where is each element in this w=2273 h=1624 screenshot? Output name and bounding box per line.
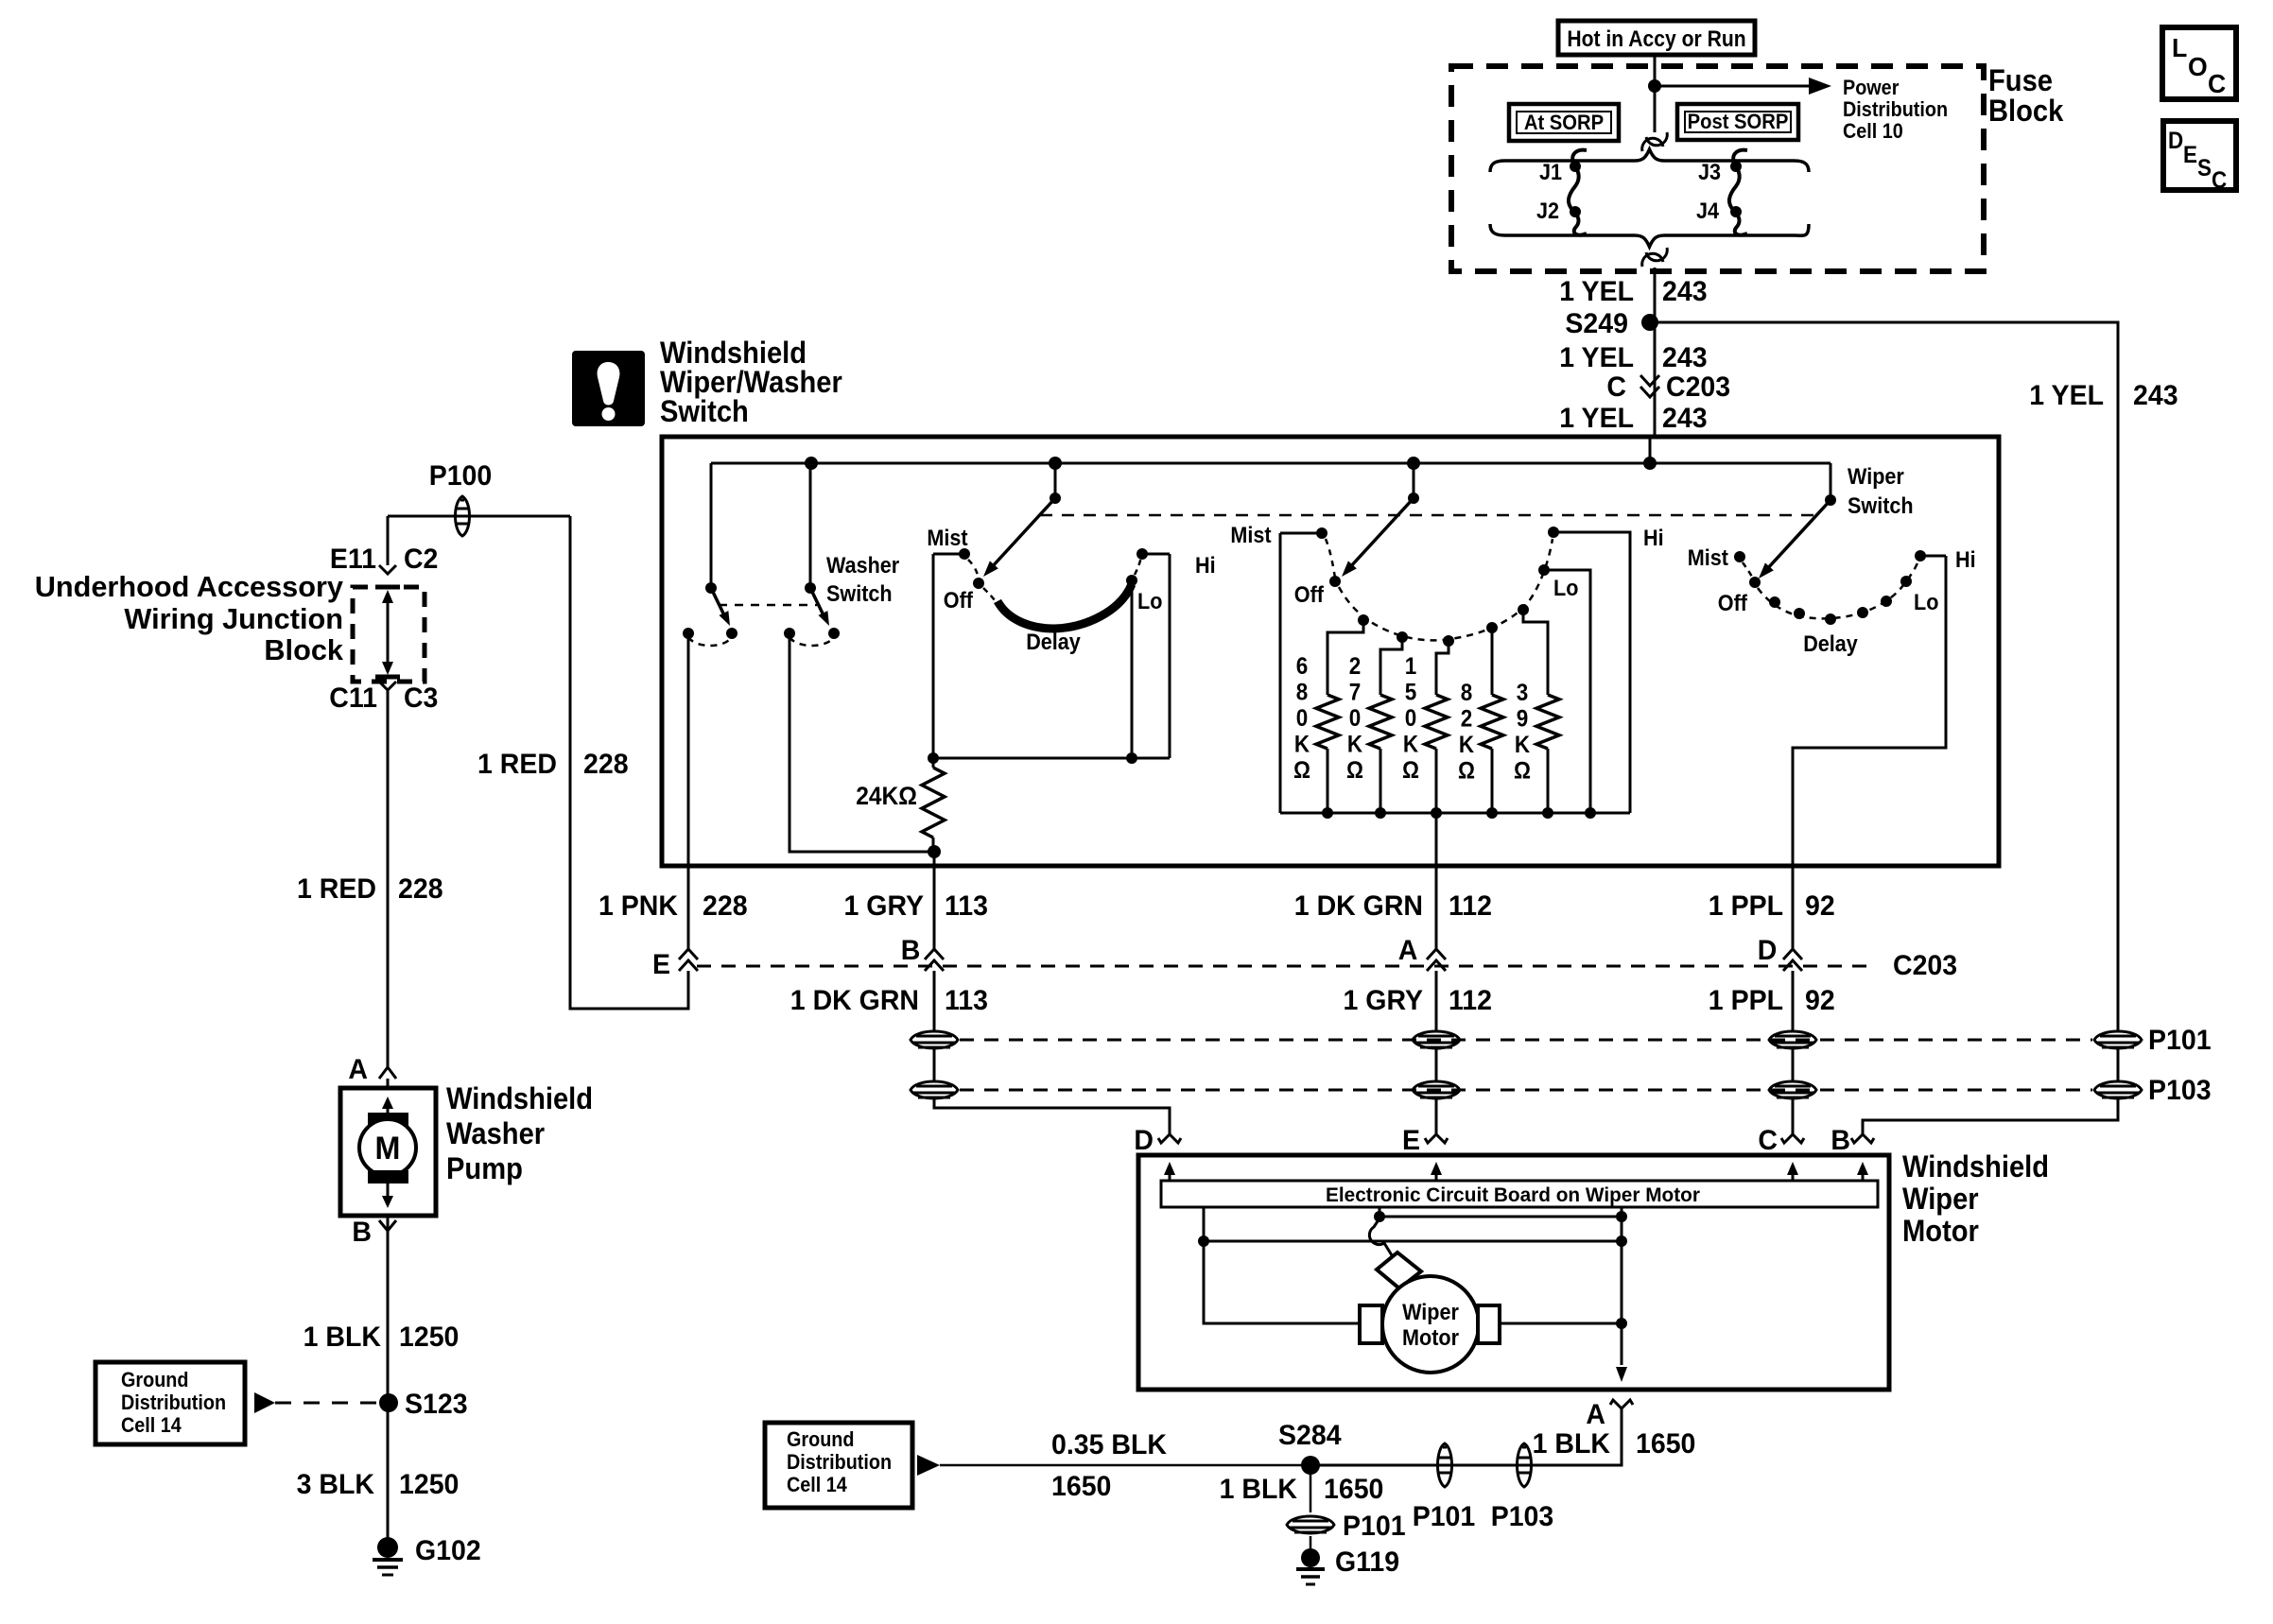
svg-text:O: O	[2188, 52, 2208, 81]
svg-text:Motor: Motor	[1402, 1325, 1459, 1351]
svg-text:M: M	[375, 1131, 401, 1166]
svg-text:1650: 1650	[1636, 1428, 1695, 1460]
fuse block dashed outline	[1451, 66, 1984, 271]
resistor rotary Off contact	[1329, 576, 1341, 587]
svg-text:Wiper: Wiper	[1402, 1300, 1459, 1325]
svg-text:92: 92	[1805, 985, 1835, 1016]
junction below 24K	[928, 845, 941, 858]
svg-text:D: D	[1758, 935, 1778, 966]
svg-text:Wiper: Wiper	[1848, 464, 1904, 490]
svg-text:Washer: Washer	[446, 1116, 545, 1150]
delay rotary bottom bus	[933, 757, 1170, 760]
svg-text:243: 243	[1662, 276, 1708, 307]
wire motor ground 1 BLK 1650	[1310, 1408, 1622, 1465]
washer pole 2 contact left	[784, 628, 795, 639]
svg-text:Delay: Delay	[1026, 630, 1081, 655]
delay rotary Lo rail	[1131, 580, 1134, 758]
svg-text:S123: S123	[405, 1389, 468, 1420]
svg-text:Wiper: Wiper	[1902, 1182, 1979, 1216]
wire rotary1 output to terminal B	[933, 852, 936, 870]
wire to wiper motor terminal C	[1792, 971, 1795, 1134]
pass-through P103 dashed line	[960, 1089, 2092, 1092]
svg-text:5: 5	[1405, 680, 1417, 706]
inline connector P103 (D column)	[1769, 1081, 1816, 1098]
svg-text:1 YEL: 1 YEL	[1559, 276, 1634, 307]
svg-text:Switch: Switch	[1848, 493, 1914, 519]
svg-text:1 RED: 1 RED	[297, 873, 376, 905]
splice S123	[379, 1393, 398, 1412]
wire board armature feed	[1379, 1207, 1381, 1217]
svg-text:C203: C203	[1666, 371, 1730, 403]
svg-text:0: 0	[1405, 705, 1417, 732]
svg-text:Ground: Ground	[787, 1427, 855, 1451]
inline connector P101 (A column)	[1413, 1031, 1460, 1048]
svg-text:Ω: Ω	[1514, 758, 1531, 785]
svg-text:1 DK GRN: 1 DK GRN	[790, 985, 919, 1016]
svg-text:Underhood Accessory: Underhood Accessory	[35, 570, 344, 603]
svg-text:C2: C2	[404, 544, 438, 575]
svg-text:243: 243	[2133, 380, 2178, 411]
wire to wiper motor terminal D	[934, 971, 1170, 1134]
inline connector P103 (A column)	[1413, 1081, 1460, 1098]
dashed link to S123	[275, 1402, 378, 1405]
wire hop to commutator	[1369, 1218, 1392, 1255]
svg-text:243: 243	[1662, 403, 1708, 434]
wiper switch Hi contact	[1915, 550, 1926, 561]
svg-text:Post SORP: Post SORP	[1688, 110, 1789, 133]
svg-text:243: 243	[1662, 342, 1708, 373]
gang link dashed (rotary arms)	[1040, 514, 1815, 517]
connector box At SORP	[1509, 104, 1619, 141]
wire from Hot in Accy or Run into fuse block	[1654, 55, 1657, 132]
motor input arrow B	[1862, 1166, 1865, 1181]
electronic circuit board	[1161, 1181, 1878, 1207]
inline connector P103 (right YEL)	[2094, 1081, 2142, 1098]
svg-text:Off: Off	[1294, 582, 1325, 608]
wire break above upper brace	[1642, 132, 1668, 151]
svg-text:B: B	[352, 1217, 372, 1248]
wire terminal B to C203, 1 GRY 113	[933, 870, 936, 951]
inline connector P101 (ground wire)	[1438, 1443, 1452, 1487]
svg-text:1 BLK: 1 BLK	[304, 1322, 382, 1353]
wire washer pole 2 output	[789, 633, 934, 852]
svg-text:C3: C3	[404, 682, 438, 714]
wire pump to S123, 1 BLK 1250	[387, 1216, 390, 1403]
svg-text:G119: G119	[1335, 1546, 1399, 1578]
wire break below lower brace	[1642, 248, 1668, 267]
washer pole 1 contact left	[683, 628, 694, 639]
resistor 82K ohm	[1486, 622, 1498, 633]
svg-text:1 PNK: 1 PNK	[599, 890, 678, 922]
svg-text:Lo: Lo	[1553, 576, 1578, 601]
svg-text:Switch: Switch	[826, 581, 893, 607]
underhood junction block dashed outline	[353, 587, 425, 682]
svg-text:Hi: Hi	[1955, 547, 1976, 573]
wire 1 YEL feed into switch	[1649, 437, 1652, 463]
svg-text:K: K	[1515, 732, 1530, 758]
svg-text:B: B	[1831, 1125, 1850, 1156]
svg-text:C: C	[2212, 167, 2227, 194]
wiper switch delay travel arc with detent dots	[1758, 558, 1919, 618]
svg-text:P103: P103	[2148, 1075, 2212, 1106]
windshield washer pump outline	[340, 1088, 436, 1216]
svg-text:Fuse: Fuse	[1988, 63, 2053, 97]
svg-text:Ω: Ω	[1402, 757, 1419, 784]
delay rotary arm	[991, 498, 1055, 568]
wiper switch pivot stub	[1830, 463, 1832, 500]
svg-text:Off: Off	[1718, 591, 1748, 616]
dashed travel arc rotary 2	[1326, 539, 1335, 578]
svg-text:C: C	[2208, 69, 2226, 98]
resistor 39K ohm	[1518, 604, 1529, 615]
ground distribution cell 14 box (S284)	[765, 1423, 912, 1508]
ground distribution cell 14 box (S123)	[95, 1362, 245, 1444]
svg-text:2: 2	[1461, 706, 1473, 733]
wire to wiper motor terminal E	[1435, 971, 1438, 1134]
svg-text:Off: Off	[944, 588, 974, 613]
inline connector P101 (B column)	[911, 1031, 958, 1048]
svg-text:Delay: Delay	[1803, 631, 1858, 657]
pass-through P101 dashed line	[960, 1039, 2092, 1042]
svg-text:8: 8	[1461, 680, 1473, 706]
svg-text:L: L	[2172, 33, 2187, 62]
svg-text:Pump: Pump	[446, 1151, 523, 1185]
svg-text:Ω: Ω	[1293, 757, 1310, 784]
upper brace	[1490, 149, 1809, 172]
delay rotary Lo contact	[1126, 575, 1137, 586]
washer pole 2 arm	[810, 588, 824, 617]
resistor bank bottom bus	[1280, 812, 1630, 815]
svg-text:A: A	[1586, 1399, 1605, 1430]
svg-text:1 PPL: 1 PPL	[1709, 890, 1783, 922]
svg-text:1 RED: 1 RED	[477, 749, 557, 780]
svg-text:P101: P101	[2148, 1025, 2212, 1056]
fuse J3/J4	[1729, 150, 1747, 235]
pump lower brush block	[368, 1170, 408, 1183]
svg-text:B: B	[901, 935, 921, 966]
internal supply bus	[711, 462, 1831, 465]
svg-text:113: 113	[945, 890, 988, 922]
svg-text:Cell 10: Cell 10	[1843, 119, 1903, 143]
DESC reference box	[2163, 121, 2236, 190]
wire S284 to P101 below, 1 BLK 1650	[1310, 1465, 1312, 1512]
svg-text:112: 112	[1449, 985, 1492, 1016]
svg-text:Lo: Lo	[1137, 589, 1162, 614]
svg-text:S249: S249	[1565, 308, 1628, 339]
delay rotary Hi rail	[1169, 554, 1171, 758]
power source box "Hot in Accy or Run"	[1558, 21, 1755, 55]
svg-text:Distribution: Distribution	[1843, 97, 1948, 121]
wire armature top link	[1379, 1216, 1622, 1218]
wire 0.35 BLK 1650	[940, 1464, 1310, 1467]
svg-text:Power: Power	[1843, 76, 1900, 99]
svg-text:Mist: Mist	[927, 526, 967, 551]
svg-text:K: K	[1459, 732, 1474, 758]
svg-text:Ω: Ω	[1458, 758, 1475, 785]
pump motor M	[359, 1119, 416, 1176]
wire below E to red feed	[570, 516, 688, 1009]
motor input arrow E	[1435, 1166, 1438, 1181]
svg-text:228: 228	[398, 873, 443, 905]
LOC reference box	[2162, 27, 2236, 99]
svg-text:Ω: Ω	[1346, 757, 1363, 784]
svg-text:S284: S284	[1278, 1420, 1342, 1451]
inline connector P101 (D column)	[1769, 1031, 1816, 1048]
svg-text:1650: 1650	[1324, 1474, 1383, 1505]
junction YEL feed on bus	[1643, 457, 1657, 470]
washer pole 2 pivot	[805, 582, 816, 594]
resistor rotary Hi contact	[1548, 527, 1559, 538]
svg-text:Hi: Hi	[1643, 526, 1664, 551]
wire motor output down	[1621, 1207, 1623, 1365]
svg-text:J2: J2	[1536, 199, 1559, 224]
arrow from ground distribution	[917, 1455, 940, 1476]
svg-text:1 GRY: 1 GRY	[844, 890, 925, 922]
svg-text:1 BLK: 1 BLK	[1533, 1428, 1611, 1460]
inline connector P101 (right YEL)	[2094, 1031, 2142, 1048]
wiper switch Off contact	[1749, 577, 1761, 588]
svg-text:A: A	[1398, 935, 1418, 966]
pump upper brush block	[368, 1113, 408, 1126]
delay rotary Off contact	[973, 578, 984, 589]
svg-text:E: E	[2183, 142, 2197, 168]
svg-text:228: 228	[583, 749, 629, 780]
resistor rotary arm	[1349, 498, 1414, 568]
wire terminal D to C203, 1 PPL 92	[1792, 870, 1795, 951]
svg-text:P103: P103	[1491, 1501, 1554, 1532]
arrow to Power Distribution Cell 10	[1655, 85, 1812, 88]
svg-text:6: 6	[1296, 653, 1309, 680]
svg-text:Electronic Circuit Board on Wi: Electronic Circuit Board on Wiper Motor	[1326, 1184, 1700, 1206]
motor left brush tab	[1360, 1305, 1382, 1343]
svg-text:P100: P100	[429, 460, 493, 492]
ground G102	[377, 1537, 398, 1558]
wire fuse block output, net 243	[1654, 268, 1657, 437]
junction on left stub	[1198, 1235, 1209, 1247]
connector P101 (to G119)	[1287, 1516, 1334, 1533]
svg-text:1 YEL: 1 YEL	[2029, 380, 2104, 411]
wiper switch arm	[1766, 500, 1831, 570]
delay band solid arc	[983, 588, 995, 600]
svg-text:1 BLK: 1 BLK	[1220, 1474, 1298, 1505]
svg-text:E: E	[652, 949, 670, 980]
pump output arrow	[387, 1183, 390, 1199]
svg-text:Washer: Washer	[826, 553, 899, 579]
wire junction block to washer pump, 1 RED 228	[387, 700, 390, 1065]
wire cross link	[1204, 1240, 1622, 1243]
svg-text:1 YEL: 1 YEL	[1559, 403, 1634, 434]
svg-text:Switch: Switch	[660, 394, 749, 428]
junction block internal path	[375, 585, 400, 590]
svg-text:Cell 14: Cell 14	[121, 1413, 182, 1437]
svg-text:7: 7	[1349, 680, 1362, 706]
pump input arrow	[387, 1101, 390, 1113]
svg-text:K: K	[1347, 732, 1362, 758]
svg-text:112: 112	[1449, 890, 1492, 922]
svg-text:1 PPL: 1 PPL	[1709, 985, 1783, 1016]
resistor rotary Mist rail	[1279, 533, 1282, 813]
svg-text:Wiring Junction: Wiring Junction	[124, 602, 343, 635]
svg-text:Mist: Mist	[1230, 523, 1271, 548]
svg-text:K: K	[1403, 732, 1418, 758]
svg-text:8: 8	[1296, 680, 1309, 706]
svg-text:1 GRY: 1 GRY	[1344, 985, 1424, 1016]
svg-text:1: 1	[1405, 653, 1417, 680]
svg-text:C: C	[1758, 1125, 1778, 1156]
svg-text:P101: P101	[1413, 1501, 1476, 1532]
svg-text:113: 113	[945, 985, 988, 1016]
dashed link Mist-Off	[968, 560, 979, 579]
washer pole 1 contact right	[726, 628, 737, 639]
inline connector P103 (B column)	[911, 1081, 958, 1098]
svg-text:1250: 1250	[399, 1469, 459, 1500]
junction washer pole 2	[805, 457, 818, 470]
svg-text:1250: 1250	[399, 1322, 459, 1353]
svg-text:Block: Block	[1988, 94, 2063, 128]
svg-text:Hot in Accy or Run: Hot in Accy or Run	[1567, 26, 1745, 52]
wire S123 to G102, 3 BLK 1250	[387, 1403, 390, 1547]
svg-text:0: 0	[1349, 705, 1362, 732]
svg-text:0.35 BLK: 0.35 BLK	[1051, 1429, 1167, 1460]
svg-text:Block: Block	[264, 633, 343, 666]
motor input arrow C	[1792, 1166, 1795, 1181]
resistor 270K ohm	[1397, 631, 1408, 643]
wiper motor armature circle	[1382, 1276, 1479, 1373]
svg-text:3: 3	[1517, 680, 1529, 706]
svg-text:E: E	[1402, 1125, 1420, 1156]
svg-text:Mist: Mist	[1688, 545, 1728, 571]
svg-text:Ground: Ground	[121, 1368, 189, 1391]
wire right YEL down to motor terminal B	[1863, 1021, 2118, 1134]
svg-text:1 YEL: 1 YEL	[1559, 342, 1634, 373]
motor input arrow D	[1169, 1166, 1171, 1181]
washer pole 1 pivot	[705, 582, 717, 594]
dashed link Lo-Hi	[1135, 557, 1141, 575]
svg-text:Cell 14: Cell 14	[787, 1473, 847, 1496]
wire wiper switch output to terminal D	[1793, 556, 1946, 870]
svg-text:Hi: Hi	[1195, 553, 1216, 579]
washer pole 1 travel arc	[688, 637, 732, 646]
delay rotary Hi contact	[1136, 548, 1148, 560]
svg-text:1 DK GRN: 1 DK GRN	[1294, 890, 1423, 922]
wire rotary2 output to terminal A	[1435, 813, 1438, 870]
svg-text:0: 0	[1296, 705, 1309, 732]
windshield wiper motor outline	[1138, 1155, 1889, 1390]
svg-text:C203: C203	[1893, 950, 1957, 981]
svg-text:J4: J4	[1696, 199, 1720, 224]
svg-text:J3: J3	[1698, 160, 1721, 185]
svg-text:9: 9	[1517, 706, 1529, 733]
svg-text:Windshield: Windshield	[1902, 1149, 2049, 1183]
wire board to motor left brush	[1204, 1207, 1360, 1323]
arrow from ground distribution (S123)	[254, 1392, 275, 1413]
svg-text:A: A	[348, 1054, 368, 1085]
wire washer pole 1 output to terminal E	[687, 633, 690, 870]
wire S249 branch to right side, 1 YEL 243	[1650, 322, 2118, 1021]
washer pole 1 arm	[711, 588, 725, 617]
resistor rotary Lo contact	[1538, 564, 1550, 576]
svg-text:D: D	[2168, 128, 2183, 154]
svg-text:92: 92	[1805, 890, 1835, 922]
connector box Post SORP	[1677, 104, 1798, 140]
svg-text:Windshield: Windshield	[446, 1081, 593, 1115]
svg-text:Motor: Motor	[1902, 1214, 1979, 1248]
washer switch pole 1 fixed wire	[710, 463, 713, 586]
svg-text:C: C	[1606, 371, 1626, 403]
svg-text:S: S	[2197, 155, 2212, 181]
svg-text:C11: C11	[329, 682, 377, 714]
resistor 680K ohm	[1358, 614, 1369, 626]
svg-text:3 BLK: 3 BLK	[297, 1469, 375, 1500]
wire terminal E to C203, 1 PNK 228	[687, 870, 690, 951]
lower brace	[1490, 224, 1809, 247]
wire P100 down-left	[387, 516, 390, 565]
svg-text:2: 2	[1349, 653, 1362, 680]
junction delay rotary pivot stub	[1049, 457, 1062, 470]
wiper switch Mist contact	[1734, 551, 1745, 562]
motor right brush tab	[1478, 1305, 1500, 1343]
inline connector P103 (ground wire)	[1518, 1443, 1532, 1487]
resistor 150K ohm	[1443, 635, 1454, 647]
svg-text:Distribution: Distribution	[787, 1450, 892, 1474]
junction on feed wire	[1648, 79, 1661, 93]
warning icon	[572, 351, 645, 426]
windshield wiper/washer switch outline	[662, 437, 1999, 866]
svg-text:Lo: Lo	[1914, 590, 1938, 615]
svg-text:228: 228	[703, 890, 748, 922]
svg-text:At SORP: At SORP	[1524, 111, 1604, 134]
svg-text:Distribution: Distribution	[121, 1391, 226, 1414]
washer pole 2 travel arc	[789, 637, 834, 646]
washer pole 2 contact right	[828, 628, 840, 639]
delay rotary pivot stub	[1054, 463, 1057, 498]
junction resistor rotary pivot stub	[1407, 457, 1420, 470]
commutator brush block	[1377, 1253, 1421, 1288]
ground G119	[1301, 1548, 1320, 1567]
wire to G119	[1310, 1536, 1312, 1552]
connector C203 dashed line	[697, 965, 1877, 968]
delay rotary Mist rail	[932, 554, 935, 758]
svg-text:K: K	[1294, 732, 1310, 758]
svg-text:G102: G102	[415, 1535, 481, 1566]
wire terminal A to C203, 1 DK GRN 112	[1435, 870, 1438, 951]
washer pole 2 fixed wire	[809, 463, 812, 586]
resistor rotary pivot stub	[1413, 463, 1415, 498]
fuse J1/J2	[1569, 150, 1587, 235]
svg-text:P101: P101	[1343, 1511, 1406, 1542]
svg-text:D: D	[1134, 1125, 1154, 1156]
svg-text:1650: 1650	[1051, 1471, 1111, 1502]
washer switch gang link	[719, 604, 817, 607]
svg-text:24KΩ: 24KΩ	[856, 782, 917, 810]
wire right brush to output	[1500, 1322, 1622, 1325]
svg-text:J1: J1	[1539, 160, 1562, 185]
